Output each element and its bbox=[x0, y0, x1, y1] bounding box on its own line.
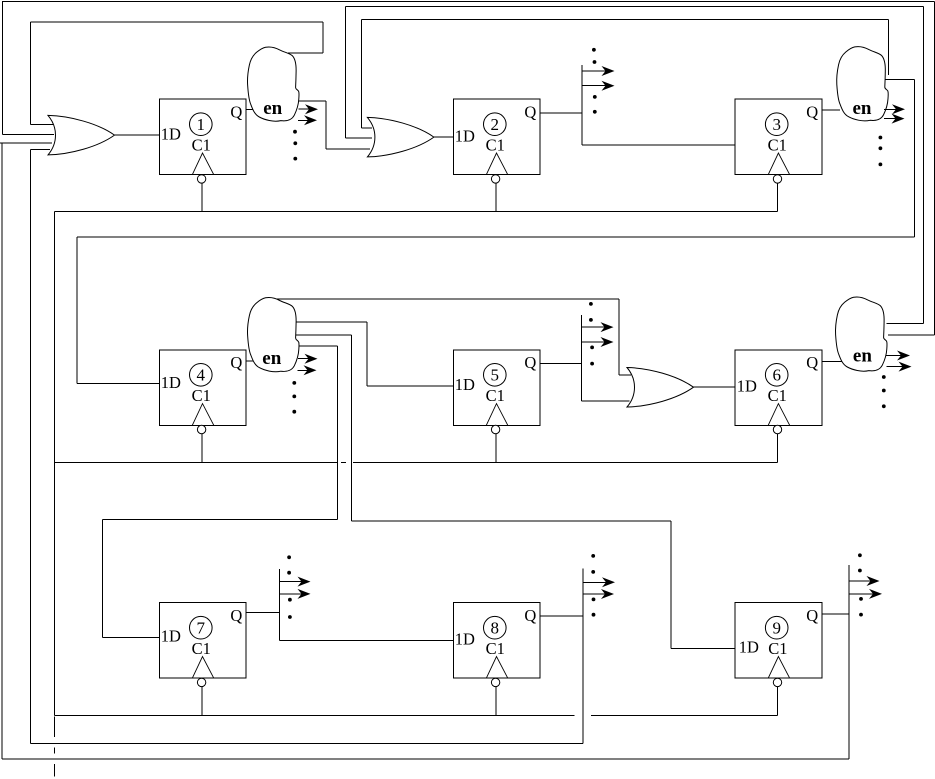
FF2 cluster ellipsis dot 3 bbox=[593, 95, 597, 99]
wire net cloud4-OR3 top horizontal bbox=[272, 298, 619, 300]
wire net cloud4-FF7 horizontal from cloud bbox=[294, 345, 337, 347]
svg-text:Q: Q bbox=[230, 606, 242, 625]
cloud EN6 output arrow 1 bbox=[886, 351, 910, 361]
FF8 circled number 8 bbox=[484, 616, 507, 639]
svg-text:C1: C1 bbox=[768, 136, 787, 155]
FF3 circled number 3 bbox=[765, 113, 788, 136]
wire FF4 1D input horizontal bbox=[77, 383, 159, 385]
wire OR1 input 4 horizontal bbox=[30, 149, 50, 151]
FF9 cluster ellipsis dot 2 bbox=[858, 569, 862, 573]
FF7 cluster ellipsis dot 4 bbox=[288, 615, 292, 619]
wire clock spine below row3 segment bbox=[54, 716, 56, 737]
FF7 cluster ellipsis dot 3 bbox=[288, 598, 292, 602]
cloud EN1 output arrow 2 bbox=[298, 115, 317, 125]
cloud EN6 ellipsis dot 3 bbox=[882, 404, 886, 408]
svg-text:1D: 1D bbox=[455, 127, 475, 146]
wire FF9 Q to cluster bbox=[822, 613, 849, 615]
svg-text:en: en bbox=[853, 98, 872, 119]
wire net cloud3-FF4 long horizontal bbox=[77, 236, 915, 238]
FF9 cluster ellipsis dot 1 bbox=[858, 553, 862, 557]
wire net cloud4-FF7 middle horizontal bbox=[103, 518, 338, 520]
cloud EN4 ellipsis dot 2 bbox=[292, 395, 296, 399]
svg-text:C1: C1 bbox=[192, 386, 211, 405]
flip-flop FF3 box bbox=[735, 99, 822, 175]
wire net cloud3-FF4 left vertical bbox=[76, 237, 78, 384]
FF5 cluster ellipsis dot 4 bbox=[590, 362, 594, 366]
wire clock row2 dash between crossings bbox=[341, 461, 346, 463]
FF7 clock edge triangle bbox=[192, 657, 214, 679]
FF7 cluster ellipsis dot 2 bbox=[287, 571, 291, 575]
cloud EN3 ellipsis dot 3 bbox=[879, 163, 883, 167]
FF9 cluster output arrow 2 bbox=[849, 589, 882, 599]
wire net cloud1-OR2 vertical bbox=[325, 101, 327, 149]
wire clock row3 horizontal left segment bbox=[55, 714, 575, 716]
flip-flop FF8 box bbox=[453, 603, 540, 679]
cloud EN1 ellipsis dot 1 bbox=[293, 130, 297, 134]
OR gate G2 (OR feeding FF2) bbox=[367, 117, 434, 156]
wire OR2 input 3 horizontal bbox=[326, 148, 370, 150]
FF8 cluster output arrow 2 bbox=[583, 589, 614, 599]
wire FF5 output cluster vertical bbox=[581, 315, 583, 401]
wire net cloud3-OR2 en drop to cloud3 bbox=[888, 20, 890, 75]
cloud EN6 ellipsis dot 2 bbox=[882, 389, 886, 393]
wire net cloud4-FF9 middle horizontal bbox=[351, 520, 671, 522]
wire net cloud3-FF4 right vertical bbox=[914, 80, 916, 237]
wire OR2 input 1 horizontal bbox=[361, 127, 372, 129]
svg-text:C1: C1 bbox=[192, 639, 211, 658]
wire FF7 clock stub bbox=[201, 687, 203, 716]
FF7 cluster ellipsis dot 1 bbox=[287, 555, 291, 559]
wire clock row2 horizontal left segment bbox=[55, 461, 337, 463]
wire clock row3 horizontal right segment bbox=[591, 714, 778, 716]
FF6 circled number 6 bbox=[765, 364, 788, 387]
wire FF9 output cluster vertical bbox=[848, 565, 850, 759]
cloud EN6 ellipsis dot 1 bbox=[882, 375, 886, 379]
wire FF1 Q to cloud1 bbox=[246, 108, 256, 110]
FF8 clock edge triangle bbox=[486, 657, 508, 679]
wire net cloud6-OR1 cloud6 output stub bbox=[888, 334, 934, 336]
FF7 clock inversion bubble bbox=[197, 678, 205, 686]
wire FF7 1D input horizontal bbox=[103, 636, 160, 638]
svg-text:C1: C1 bbox=[768, 386, 787, 405]
wire net cloud1-OR1 en horizontal into cloud1 bbox=[288, 52, 323, 54]
wire OR1 input 3 horizontal from left edge bbox=[0, 142, 52, 144]
svg-text:Q: Q bbox=[524, 606, 536, 625]
cloud EN4 ellipsis dot 1 bbox=[292, 381, 296, 385]
svg-text:4: 4 bbox=[197, 366, 206, 385]
wire FF5 clock stub bbox=[495, 434, 497, 463]
svg-text:C1: C1 bbox=[486, 386, 505, 405]
cloud EN4 output arrow 2 bbox=[298, 365, 317, 375]
cloud EN3 output arrow 1 bbox=[884, 104, 905, 114]
wire FF8 output cluster vertical bbox=[582, 568, 584, 743]
flip-flop FF1 box bbox=[159, 99, 246, 175]
svg-text:2: 2 bbox=[491, 115, 500, 134]
cloud EN3 ellipsis dot 2 bbox=[879, 146, 883, 150]
wire net cloud6-OR1 left vertical bbox=[1, 1, 3, 134]
FF1 clock inversion bubble bbox=[197, 175, 205, 183]
wire OR3 output to FF6 1D bbox=[694, 386, 736, 388]
FF1 circled number 1 bbox=[190, 113, 213, 136]
wire net cloud4-FF9 right vertical bbox=[670, 521, 672, 648]
enable logic cloud EN6 bbox=[836, 297, 888, 371]
wire OR3 input 1 horizontal bbox=[619, 374, 631, 376]
wire OR1 input 2 horizontal bbox=[2, 133, 54, 135]
flip-flop FF6 box bbox=[735, 350, 822, 426]
wire net cloud6-OR2 top horizontal bbox=[346, 5, 924, 7]
FF9 circled number 9 bbox=[765, 616, 788, 639]
svg-text:C1: C1 bbox=[768, 639, 787, 658]
FF8 cluster ellipsis dot 3 bbox=[592, 598, 596, 602]
FF8 cluster ellipsis dot 2 bbox=[591, 570, 595, 574]
wire net cloud6-OR1 right vertical bbox=[933, 2, 935, 336]
cloud EN4 output arrow 1 bbox=[298, 354, 318, 364]
svg-text:C1: C1 bbox=[486, 136, 505, 155]
wire OR1 input 1 horizontal bbox=[30, 123, 54, 125]
FF2 cluster output arrow 1 bbox=[582, 66, 614, 76]
enable logic cloud EN3 bbox=[837, 47, 889, 121]
flip-flop FF7 box bbox=[159, 603, 246, 679]
wire FF2 Q to cluster bbox=[540, 112, 582, 114]
cloud EN1 output arrow 1 bbox=[299, 104, 319, 114]
FF7 circled number 7 bbox=[190, 616, 213, 639]
svg-text:3: 3 bbox=[772, 115, 781, 134]
enable logic cloud EN1 bbox=[248, 47, 300, 121]
svg-text:Q: Q bbox=[524, 102, 536, 121]
wire net cloud4-FF9 vertical bbox=[350, 335, 352, 521]
svg-text:C1: C1 bbox=[486, 639, 505, 658]
wire OR3 input 2 horizontal bbox=[582, 400, 630, 402]
wire net cloud3-OR2 left vertical bbox=[360, 20, 362, 129]
wire FF6 clock stub bbox=[777, 434, 779, 463]
wire net cloud4-FF9 horizontal from cloud bbox=[294, 334, 351, 336]
wire net cloud6-OR1 top horizontal bbox=[2, 1, 934, 3]
svg-text:1: 1 bbox=[197, 115, 206, 134]
wire FF4 clock stub bbox=[201, 434, 203, 463]
wire net cloud3-FF4 horizontal from cloud bbox=[884, 79, 915, 81]
FF9 clock edge triangle bbox=[768, 657, 790, 679]
wire net Q9-OR1 left vertical bbox=[1, 144, 3, 760]
wire net cloud4-FF5 vertical bbox=[366, 322, 368, 386]
wire net cloud3-OR2 top horizontal bbox=[361, 19, 888, 21]
FF8 cluster ellipsis dot 4 bbox=[592, 613, 596, 617]
svg-text:en: en bbox=[853, 346, 872, 367]
svg-text:1D: 1D bbox=[739, 638, 759, 657]
wire clock row2 horizontal right segment bbox=[353, 461, 778, 463]
wire FF1 clock stub bbox=[201, 183, 203, 211]
svg-text:7: 7 bbox=[197, 619, 206, 638]
svg-text:en: en bbox=[262, 348, 281, 369]
wire FF3 Q to cloud3 bbox=[822, 109, 840, 111]
wire clock spine vertical bbox=[54, 211, 56, 715]
wire FF6 Q to cloud6 bbox=[822, 361, 843, 363]
FF2 clock edge triangle bbox=[486, 153, 508, 175]
svg-text:1D: 1D bbox=[455, 375, 475, 394]
FF6 clock inversion bubble bbox=[773, 425, 781, 433]
svg-text:8: 8 bbox=[491, 619, 500, 638]
flip-flop FF4 box bbox=[159, 350, 246, 426]
svg-text:9: 9 bbox=[772, 619, 781, 638]
cloud EN1 ellipsis dot 3 bbox=[293, 157, 297, 161]
wire net cloud1-OR2 horizontal from cloud bbox=[299, 100, 326, 102]
wire clock row1 horizontal bbox=[55, 210, 778, 212]
FF4 circled number 4 bbox=[190, 364, 213, 387]
FF2 cluster ellipsis dot 2 bbox=[593, 60, 597, 64]
OR gate G3 (OR feeding FF6) bbox=[627, 368, 694, 408]
FF3 clock inversion bubble bbox=[773, 175, 781, 183]
wire net Q9-OR1 bottom horizontal bbox=[2, 758, 849, 760]
wire FF9 clock stub bbox=[777, 687, 779, 716]
svg-text:Q: Q bbox=[230, 102, 242, 121]
FF6 clock edge triangle bbox=[768, 404, 790, 426]
FF5 clock inversion bubble bbox=[491, 425, 499, 433]
flip-flop FF9 box bbox=[735, 603, 822, 679]
FF5 clock edge triangle bbox=[486, 404, 508, 426]
wire FF2 output cluster vertical bbox=[581, 65, 583, 145]
wire OR2 input 2 horizontal bbox=[346, 137, 373, 139]
FF8 cluster output arrow 1 bbox=[583, 577, 615, 587]
FF7 cluster output arrow 1 bbox=[280, 577, 311, 587]
svg-text:Q: Q bbox=[806, 606, 818, 625]
flip-flop FF2 box bbox=[453, 99, 540, 175]
svg-text:en: en bbox=[263, 98, 282, 119]
FF9 cluster ellipsis dot 3 bbox=[859, 597, 863, 601]
wire FF7 Q to cluster bbox=[246, 611, 280, 613]
svg-text:C1: C1 bbox=[192, 136, 211, 155]
svg-text:Q: Q bbox=[806, 353, 818, 372]
FF5 cluster output arrow 2 bbox=[582, 337, 614, 347]
wire FF5 1D input horizontal bbox=[367, 385, 453, 387]
svg-text:1D: 1D bbox=[161, 627, 181, 646]
wire clock spine dash 1 bbox=[54, 748, 56, 754]
wire clock spine dash 2 bbox=[54, 764, 56, 777]
svg-text:1D: 1D bbox=[161, 124, 181, 143]
cloud EN3 ellipsis dot 1 bbox=[879, 136, 883, 140]
svg-text:1D: 1D bbox=[737, 376, 757, 395]
svg-text:6: 6 bbox=[772, 366, 781, 385]
FF2 clock inversion bubble bbox=[491, 175, 499, 183]
FF4 clock inversion bubble bbox=[197, 425, 205, 433]
wire net cloud4-FF5 horizontal from cloud bbox=[294, 321, 367, 323]
wire OR2 output to FF2 1D bbox=[434, 136, 453, 138]
wire net Q8-OR1 bottom horizontal bbox=[30, 742, 582, 744]
wire FF2 clock stub bbox=[495, 183, 497, 211]
wire net cloud4-FF7 vertical bbox=[336, 346, 338, 519]
FF2 cluster ellipsis dot 4 bbox=[593, 110, 597, 114]
wire net cloud4-FF7 left vertical bbox=[102, 519, 104, 637]
FF1 clock edge triangle bbox=[192, 153, 214, 175]
FF8 clock inversion bubble bbox=[491, 678, 499, 686]
FF4 clock edge triangle bbox=[192, 404, 214, 426]
FF2 cluster ellipsis dot 1 bbox=[592, 48, 596, 52]
FF7 cluster output arrow 2 bbox=[280, 589, 311, 599]
flip-flop FF5 box bbox=[453, 350, 540, 426]
wire net cloud6-OR2 cloud6 output stub bbox=[887, 323, 924, 325]
wire net cloud1-OR1 en drop bbox=[322, 22, 324, 53]
FF9 cluster output arrow 1 bbox=[849, 576, 880, 586]
FF5 cluster ellipsis dot 2 bbox=[589, 318, 593, 322]
wire FF7 output cluster vertical bbox=[279, 569, 281, 640]
FF2 circled number 2 bbox=[484, 113, 507, 136]
svg-text:Q: Q bbox=[230, 353, 242, 372]
FF8 cluster ellipsis dot 1 bbox=[591, 554, 595, 558]
wire FF3 clock stub bbox=[777, 183, 779, 211]
svg-text:Q: Q bbox=[524, 353, 536, 372]
FF9 clock inversion bubble bbox=[773, 678, 781, 686]
FF9 cluster ellipsis dot 4 bbox=[859, 613, 863, 617]
wire FF2 cluster to FF3 C1 input bbox=[582, 144, 735, 146]
wire net cloud4-OR3 vertical bbox=[618, 299, 620, 375]
wire FF4 Q to cloud4 bbox=[246, 360, 256, 362]
FF5 cluster ellipsis dot 1 bbox=[589, 302, 593, 306]
FF3 clock edge triangle bbox=[768, 153, 790, 175]
wire FF8 Q to cluster bbox=[540, 615, 583, 617]
enable logic cloud EN4 bbox=[248, 298, 300, 372]
wire net Q8-OR1 left vertical bbox=[29, 150, 31, 744]
FF5 circled number 5 bbox=[484, 364, 507, 387]
cloud EN3 output arrow 2 bbox=[884, 114, 905, 124]
cloud EN1 ellipsis dot 2 bbox=[293, 141, 297, 145]
FF2 cluster output arrow 2 bbox=[582, 81, 614, 91]
wire net cloud1-OR1 top horizontal bbox=[30, 21, 323, 23]
wire FF8 clock stub bbox=[495, 687, 497, 716]
wire net cloud6-OR2 left vertical bbox=[345, 6, 347, 138]
FF5 cluster output arrow 1 bbox=[582, 322, 614, 332]
svg-text:1D: 1D bbox=[455, 630, 475, 649]
wire net cloud6-OR2 right vertical bbox=[922, 6, 924, 323]
cloud EN4 ellipsis dot 3 bbox=[292, 410, 296, 414]
FF5 cluster ellipsis dot 3 bbox=[590, 346, 594, 350]
wire net cloud1-OR1 left vertical bbox=[29, 22, 31, 124]
wire FF7 cluster to FF8 1D input bbox=[280, 639, 454, 641]
svg-text:Q: Q bbox=[806, 102, 818, 121]
wire FF5 Q to cluster bbox=[540, 363, 582, 365]
wire FF9 1D input horizontal bbox=[671, 647, 735, 649]
svg-text:5: 5 bbox=[491, 366, 500, 385]
svg-text:1D: 1D bbox=[161, 373, 181, 392]
wire OR1 output to FF1 1D bbox=[114, 134, 159, 136]
OR gate G1 (OR feeding FF1) bbox=[48, 115, 115, 154]
cloud EN6 output arrow 2 bbox=[887, 362, 912, 372]
